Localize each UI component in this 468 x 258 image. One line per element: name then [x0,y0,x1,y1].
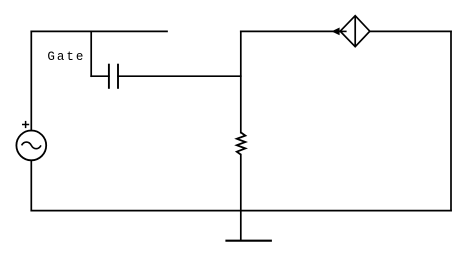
current source arrow (points left) [336,30,347,32]
wire top-left gate stub [31,30,167,32]
wire bottom rail [31,210,451,212]
wire capacitor right lead to center node [118,75,241,77]
ground [225,240,272,242]
wire current source to right corner [370,30,451,32]
dependent current source diamond [340,16,370,47]
polarity plus sign [22,121,29,128]
resistor R1 [237,133,246,155]
svg-text:Gate: Gate [47,50,83,64]
wire right vertical [450,31,452,210]
wire left vertical (source top lead) [30,31,32,130]
wire center vertical lower to ground [240,155,242,241]
wire gate drop vertical [90,31,92,76]
wire center vertical upper [240,31,242,132]
capacitor C1 [109,64,118,89]
wire left vertical (source bottom lead) [30,161,32,211]
wire top-right (node to current source arrow) [241,30,333,32]
wire capacitor left lead [91,75,109,77]
voltage source V1 (AC) [16,131,46,161]
current source internal line [354,16,356,47]
